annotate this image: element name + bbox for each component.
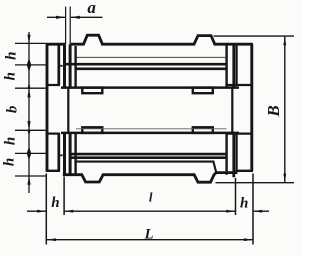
top band plate line 1 xyxy=(64,63,227,66)
svg-text:h: h xyxy=(2,72,18,80)
top band plate line 2 xyxy=(76,68,227,71)
bottom band inner line with chamfer xyxy=(76,162,217,173)
svg-text:B: B xyxy=(264,105,283,117)
left dimension column: vertical line xyxy=(28,32,30,193)
middle band right end xyxy=(231,88,233,133)
svg-text:h: h xyxy=(240,196,248,212)
B dimension line xyxy=(284,36,286,182)
diamond at 132.9 bottom side xyxy=(28,131,31,137)
dimension a: extension lines xyxy=(66,7,71,45)
faint bottom band inner line xyxy=(76,128,227,130)
outer plate right: bottom edge xyxy=(235,170,253,172)
outer plate left: bottom edge xyxy=(46,170,60,172)
arrowhead a left xyxy=(56,16,65,19)
B dimension: extension lines xyxy=(214,36,295,183)
outer plate left: bottom edge upper rect xyxy=(46,84,60,86)
diamond at 87.6 top side xyxy=(28,82,31,88)
bottom outline with roller bumps xyxy=(63,173,238,183)
diamond at 65.8 xyxy=(27,58,32,71)
pin bar B left xyxy=(69,44,72,175)
bottom extension lines xyxy=(46,174,253,245)
body left edge xyxy=(74,46,76,175)
top outline with roller bumps xyxy=(46,35,253,44)
arrowhead h bottom-left (points right at 44.7) xyxy=(37,210,46,213)
arrowhead h bottom-right (points left at 251.3) xyxy=(253,210,262,213)
outer plate right: right edge xyxy=(250,44,253,171)
arrowhead left col bottom (up into 175.1) xyxy=(27,176,30,185)
arrow b up at 87.6 xyxy=(27,88,30,97)
arrowhead B bottom xyxy=(283,174,286,183)
left dimension column: extension lines xyxy=(15,43,46,176)
tab top-left xyxy=(82,88,102,94)
bottom band plate line 2 xyxy=(71,156,227,159)
top band inner faint line xyxy=(76,56,227,58)
pin bar right xyxy=(232,44,235,177)
outer plate left: left edge xyxy=(46,43,49,171)
dimension a: left arrow line xyxy=(47,16,65,18)
dimension line h-l-h (bottom) xyxy=(27,210,269,212)
arrowhead a right xyxy=(71,16,80,19)
outer plate left: right edge lower xyxy=(57,134,60,171)
svg-text:L: L xyxy=(144,227,154,243)
svg-text:h: h xyxy=(2,137,18,145)
svg-text:h: h xyxy=(2,158,18,166)
body right edge xyxy=(225,44,227,175)
pin bar A left xyxy=(63,44,66,175)
arrowhead left col top (down into 44) xyxy=(27,35,30,44)
arrowhead l right xyxy=(226,210,235,213)
svg-text:h: h xyxy=(4,52,20,60)
svg-text:a: a xyxy=(87,0,96,17)
dimension line L (bottom) xyxy=(47,239,253,241)
dimension a: right arrow line xyxy=(71,16,103,18)
bottom band plate line 1 xyxy=(71,153,227,156)
middle band top line xyxy=(61,86,239,89)
outer plate right: left edge lower xyxy=(236,134,238,171)
middle band bottom line xyxy=(61,132,239,135)
tab bottom-left xyxy=(82,127,102,133)
tab bottom-right xyxy=(193,127,213,133)
outer plate left: top edge lower rect xyxy=(46,133,60,135)
outer plate right: left edge upper xyxy=(236,44,238,85)
arrowhead L right xyxy=(244,238,253,241)
arrowhead L left xyxy=(47,238,56,241)
tab top-right xyxy=(193,88,213,94)
svg-text:l: l xyxy=(149,190,153,205)
svg-text:b: b xyxy=(5,105,21,113)
outer plate right: bottom edge upper rect xyxy=(228,84,254,86)
outer plate right: top edge lower rect xyxy=(228,133,254,135)
short plate joint line left bottom xyxy=(60,154,62,156)
arrowhead l left xyxy=(64,210,73,213)
arrowhead B top xyxy=(283,36,286,45)
svg-text:h: h xyxy=(51,195,59,211)
outer plate left: right edge upper xyxy=(57,44,60,85)
middle band left end xyxy=(67,88,69,133)
arrow b down at 132.9 xyxy=(27,121,30,130)
short plate joint line left top xyxy=(60,65,62,67)
diamond at 155.3 xyxy=(27,147,32,160)
